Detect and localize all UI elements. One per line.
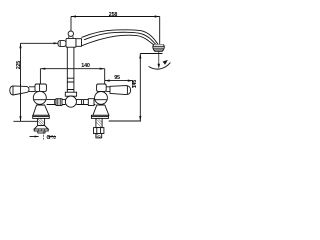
right thread <box>96 134 102 138</box>
swivel arc <box>149 63 171 70</box>
column shaft <box>67 47 74 92</box>
aerator top <box>154 44 163 46</box>
left bell <box>33 105 49 115</box>
column body <box>66 38 76 47</box>
140 left extension drop <box>39 69 41 85</box>
right shank hatch <box>96 119 102 127</box>
left ext arrowhead at nut <box>54 42 59 44</box>
left shank hatch <box>38 119 45 126</box>
column ball finial <box>68 31 73 36</box>
spout upper edge <box>82 30 159 45</box>
left dim bottom arrowhead <box>19 116 21 121</box>
bridge pipe right <box>77 100 96 105</box>
spout lower edge <box>82 35 154 46</box>
140 left arrowhead <box>40 68 45 70</box>
deck extension line right <box>109 120 141 122</box>
left valve ball <box>33 91 46 104</box>
right dimension line 145 <box>139 54 141 122</box>
svg-text:258: 258 <box>109 12 118 18</box>
top dim left extension to finial <box>70 17 72 31</box>
axis arrowhead down <box>158 64 161 69</box>
G half centerline dashed <box>42 132 44 140</box>
left dim top extension to nut <box>21 42 59 44</box>
left flange cone <box>34 126 48 129</box>
left dim top arrowhead <box>19 43 21 48</box>
column shaft joint lines <box>67 78 74 89</box>
right hex nut <box>94 128 104 134</box>
left shank tube <box>38 118 45 125</box>
left dim line overlay across grip <box>20 84 22 96</box>
bridge pipe left <box>47 100 66 105</box>
right shank tube <box>96 118 102 127</box>
right dim top extension to aerator level <box>140 53 162 55</box>
svg-text:140: 140 <box>81 63 90 69</box>
left bell base band <box>33 115 50 118</box>
top dim right extension to nozzle <box>159 17 161 45</box>
right valve ball ring <box>95 99 107 101</box>
95 right arrowhead <box>128 80 133 82</box>
spout inner line <box>84 32 156 44</box>
svg-text:145: 145 <box>132 80 138 89</box>
spout attachment nut <box>58 41 66 47</box>
spout base cylinder <box>76 39 82 47</box>
left grip cap line <box>12 86 14 95</box>
left valve ball ring <box>34 99 46 101</box>
dimension line 140 <box>40 68 104 70</box>
deck extension line left <box>13 120 40 122</box>
aerator band lines <box>153 46 164 48</box>
swivel arc arrowhead <box>163 60 168 65</box>
G half dim right arrow <box>48 136 56 138</box>
aerator body <box>153 45 165 50</box>
svg-text:225: 225 <box>16 61 22 70</box>
95 left arrowhead <box>105 80 110 82</box>
column neck <box>69 36 73 38</box>
G half dim left arrow <box>30 136 39 138</box>
bridge left ring <box>54 100 56 105</box>
left handle neck <box>29 87 35 92</box>
left flange band <box>34 129 48 131</box>
right grip cap line <box>126 86 128 95</box>
bridge tee ball <box>65 96 76 107</box>
right bell <box>93 105 109 115</box>
left tailpiece <box>38 131 45 133</box>
dimension line 95 <box>105 80 133 82</box>
95 right extension drop to handle tip <box>132 81 134 88</box>
bridge right ring <box>82 100 84 105</box>
aerator bottom lip <box>154 50 164 51</box>
left dimension line 225 <box>20 43 22 121</box>
spout axis line <box>158 51 160 67</box>
right bell base band <box>91 115 108 118</box>
top dim left arrowhead <box>71 15 76 17</box>
left valve hub <box>35 84 46 91</box>
top dim right arrowhead <box>155 15 160 17</box>
right dim bottom arrowhead <box>139 116 141 121</box>
right handle neck <box>106 87 110 92</box>
svg-text:G ½: G ½ <box>47 134 57 141</box>
left handle grip <box>10 86 29 95</box>
right dim top arrowhead <box>139 54 141 59</box>
140 right extension drop <box>104 69 106 85</box>
140 right arrowhead <box>100 68 105 70</box>
right handle grip <box>110 86 131 95</box>
bridge left nut <box>56 99 62 106</box>
column coupling <box>65 92 76 96</box>
right valve hub <box>97 84 107 91</box>
right valve ball <box>95 92 108 105</box>
svg-text:95: 95 <box>114 75 120 81</box>
bridge right nut <box>88 99 94 106</box>
top dimension line 258 <box>71 16 160 18</box>
